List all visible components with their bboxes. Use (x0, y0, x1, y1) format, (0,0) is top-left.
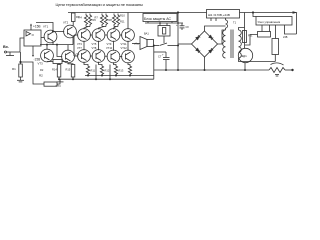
resistor R21 (272, 39, 279, 62)
transformer T1 winding II (223, 30, 226, 58)
wire top supply bus (left segment) (68, 12, 207, 14)
svg-text:R11: R11 (120, 20, 125, 24)
relay contact K1.1 (154, 43, 179, 46)
svg-text:Блок защиты АС: Блок защиты АС (144, 17, 172, 21)
svg-text:R2: R2 (39, 74, 43, 78)
wire VT1 collector to +rail (36, 23, 53, 32)
wire output to speaker (132, 43, 140, 45)
transistor VT3 (41, 49, 54, 62)
node mid rail (46, 44, 58, 46)
wire VT1 emitter (52, 41, 54, 45)
node contact (153, 45, 155, 47)
svg-text:Ш1 ±170В,+24В: Ш1 ±170В,+24В (208, 13, 230, 17)
transistor VT10 (107, 50, 120, 63)
resistor emitter zigzag col2 (99, 62, 104, 76)
wire VT2 emitter (72, 36, 74, 45)
wire op-amp output (41, 37, 45, 39)
resistor emitter zigzag col1 (84, 62, 90, 76)
resistor R4 between emitters (47, 60, 68, 64)
transformer T1 winding I (238, 30, 241, 58)
transistor VT12 (122, 50, 135, 63)
svg-text:общ: общ (56, 84, 62, 88)
resistor R2 (44, 79, 60, 86)
wire col4 interstage (127, 41, 129, 51)
node feedback (19, 61, 21, 63)
wire bridge bottom (204, 57, 206, 70)
ground common node (57, 79, 64, 82)
svg-text:R10: R10 (120, 14, 125, 18)
wire VT4 collector (67, 45, 69, 51)
wire base chain bottom row (74, 55, 122, 58)
transistor VT5 (78, 29, 91, 42)
svg-text:Узел управления: Узел управления (258, 20, 281, 24)
node speaker return (177, 45, 179, 72)
wire VT2 base (53, 31, 64, 33)
wire VT3 collector (46, 45, 48, 50)
wire protection column (177, 13, 179, 71)
wire fuse to motor (244, 43, 246, 49)
wire bus to control unit (253, 13, 256, 17)
svg-text:24В: 24В (283, 36, 288, 39)
wire contact node down (154, 46, 166, 80)
wire from bus to fuse (244, 13, 246, 31)
wire rail to end (285, 69, 293, 71)
svg-text:Цепи термостабилизации и защит: Цепи термостабилизации и защиты не показ… (56, 2, 144, 7)
input label Vx (3, 45, 9, 49)
wire top supply bus (right segment with end marker) (240, 11, 298, 14)
wire bridge right to winding II (218, 30, 226, 44)
resistor emitter zigzag col3 (114, 62, 118, 75)
transistor VT2 (64, 25, 77, 38)
svg-text:VT8: VT8 (92, 46, 97, 50)
transistor VT1 (44, 30, 57, 43)
power -15V arrow (32, 46, 34, 57)
transistor VT8 (92, 50, 105, 63)
thermal switch SK1 (269, 63, 285, 76)
wire Sh1 stubs (211, 18, 226, 21)
svg-text:R12: R12 (105, 69, 110, 73)
connector Sh1 box (207, 10, 240, 19)
wire mid rail y44.6 (40, 44, 73, 46)
svg-text:VT3: VT3 (38, 62, 44, 66)
wire base chain top row (74, 34, 122, 36)
wire lower rail right (154, 69, 269, 71)
svg-text:∞: ∞ (32, 33, 35, 37)
op-amp DA1 (24, 30, 41, 46)
svg-text:R8: R8 (109, 18, 113, 22)
wire col3 interstage (113, 41, 115, 51)
wire winding I bottom (239, 58, 276, 62)
transistor VT7 (78, 50, 91, 63)
wire winding I top to fuse (239, 28, 245, 31)
transistor VT9b (107, 29, 120, 42)
svg-text:ВА1: ВА1 (144, 32, 149, 36)
svg-text:R13: R13 (119, 69, 124, 73)
svg-text:R11: R11 (91, 69, 96, 73)
svg-text:VT11: VT11 (121, 42, 128, 46)
relay K1 (158, 26, 170, 44)
control unit box (256, 17, 292, 26)
svg-text:R14: R14 (52, 68, 57, 72)
bridge rectifier VD (192, 31, 218, 57)
wire motor to rail (244, 63, 246, 70)
svg-text:VT2: VT2 (63, 21, 69, 25)
node on bus at control unit (252, 11, 254, 13)
protection block box (143, 14, 177, 22)
transistor VT4 (62, 50, 75, 63)
ground under R1 (17, 79, 24, 82)
svg-text:ЭД1: ЭД1 (241, 54, 247, 58)
input connector (5, 51, 21, 56)
svg-text:R2: R2 (40, 68, 44, 72)
svg-text:VT12: VT12 (121, 46, 128, 50)
node on bus at protection block (177, 11, 179, 13)
resistor R5 (57, 64, 61, 80)
svg-text:VT9: VT9 (107, 42, 112, 46)
svg-text:Вх.: Вх. (3, 45, 9, 49)
resistor R3 (72, 13, 76, 27)
capacitor C7 (163, 52, 170, 70)
svg-text:VT3: VT3 (77, 42, 82, 46)
wire bridge top to winding III (205, 26, 226, 31)
svg-text:общ: общ (134, 43, 139, 46)
wire emitter col3b (109, 65, 111, 80)
wire feedback (20, 52, 22, 62)
transformer T1 winding III (226, 20, 228, 30)
svg-text:R1: R1 (12, 67, 16, 71)
svg-text:R7: R7 (95, 16, 99, 20)
wire VT4 base (57, 45, 62, 57)
svg-text:VT5: VT5 (92, 42, 97, 46)
node protection rail (159, 22, 179, 24)
resistor R7 zigzag pair col1 (84, 14, 92, 30)
transformer T1 core (231, 30, 233, 59)
wire base feed verticals (73, 35, 75, 56)
wire emitter col2b (95, 65, 97, 80)
transistor VT9a (92, 29, 105, 42)
label row transistors (77, 42, 127, 46)
wire input to op-amp (20, 38, 24, 52)
svg-text:VT10: VT10 (106, 46, 113, 50)
wire bottom rail (59, 78, 154, 80)
resistor R8 zigzag pair col2 (99, 14, 108, 30)
power +15V arrow (30, 24, 32, 31)
wire control unit drops (262, 25, 297, 39)
resistor emitter zigzag col4 (128, 62, 132, 75)
wire emitter rail (85, 75, 154, 77)
resistor R20 (245, 32, 271, 46)
wire col2 interstage (98, 41, 100, 50)
loudspeaker BA1 (140, 37, 154, 50)
nodes emitter rail (87, 75, 131, 77)
wire col1 interstage (83, 41, 85, 50)
resistor R1 (19, 62, 23, 79)
note: title text (56, 2, 144, 7)
resistor R10 zigzag pair col3 (112, 14, 119, 30)
nodes bottom rail (58, 78, 111, 80)
svg-text:VT1: VT1 (43, 25, 49, 29)
svg-text:R4: R4 (79, 16, 83, 20)
wire protection block bottom rail (145, 22, 183, 26)
svg-text:R15: R15 (66, 68, 71, 72)
svg-text:VT7: VT7 (77, 46, 82, 50)
fuse FU1 (243, 31, 247, 43)
motor M1 (238, 48, 252, 62)
capacitor C8 (180, 23, 185, 30)
resistor R6 (68, 62, 75, 79)
svg-text:+15В: +15В (33, 25, 41, 29)
svg-text:FU1: FU1 (248, 35, 253, 38)
wire col4 collector (127, 13, 129, 30)
transistor VT11 (122, 29, 135, 42)
wire bridge left to speaker return (178, 43, 192, 45)
wire right edge (296, 13, 298, 35)
wire to bottom branch (21, 62, 45, 84)
